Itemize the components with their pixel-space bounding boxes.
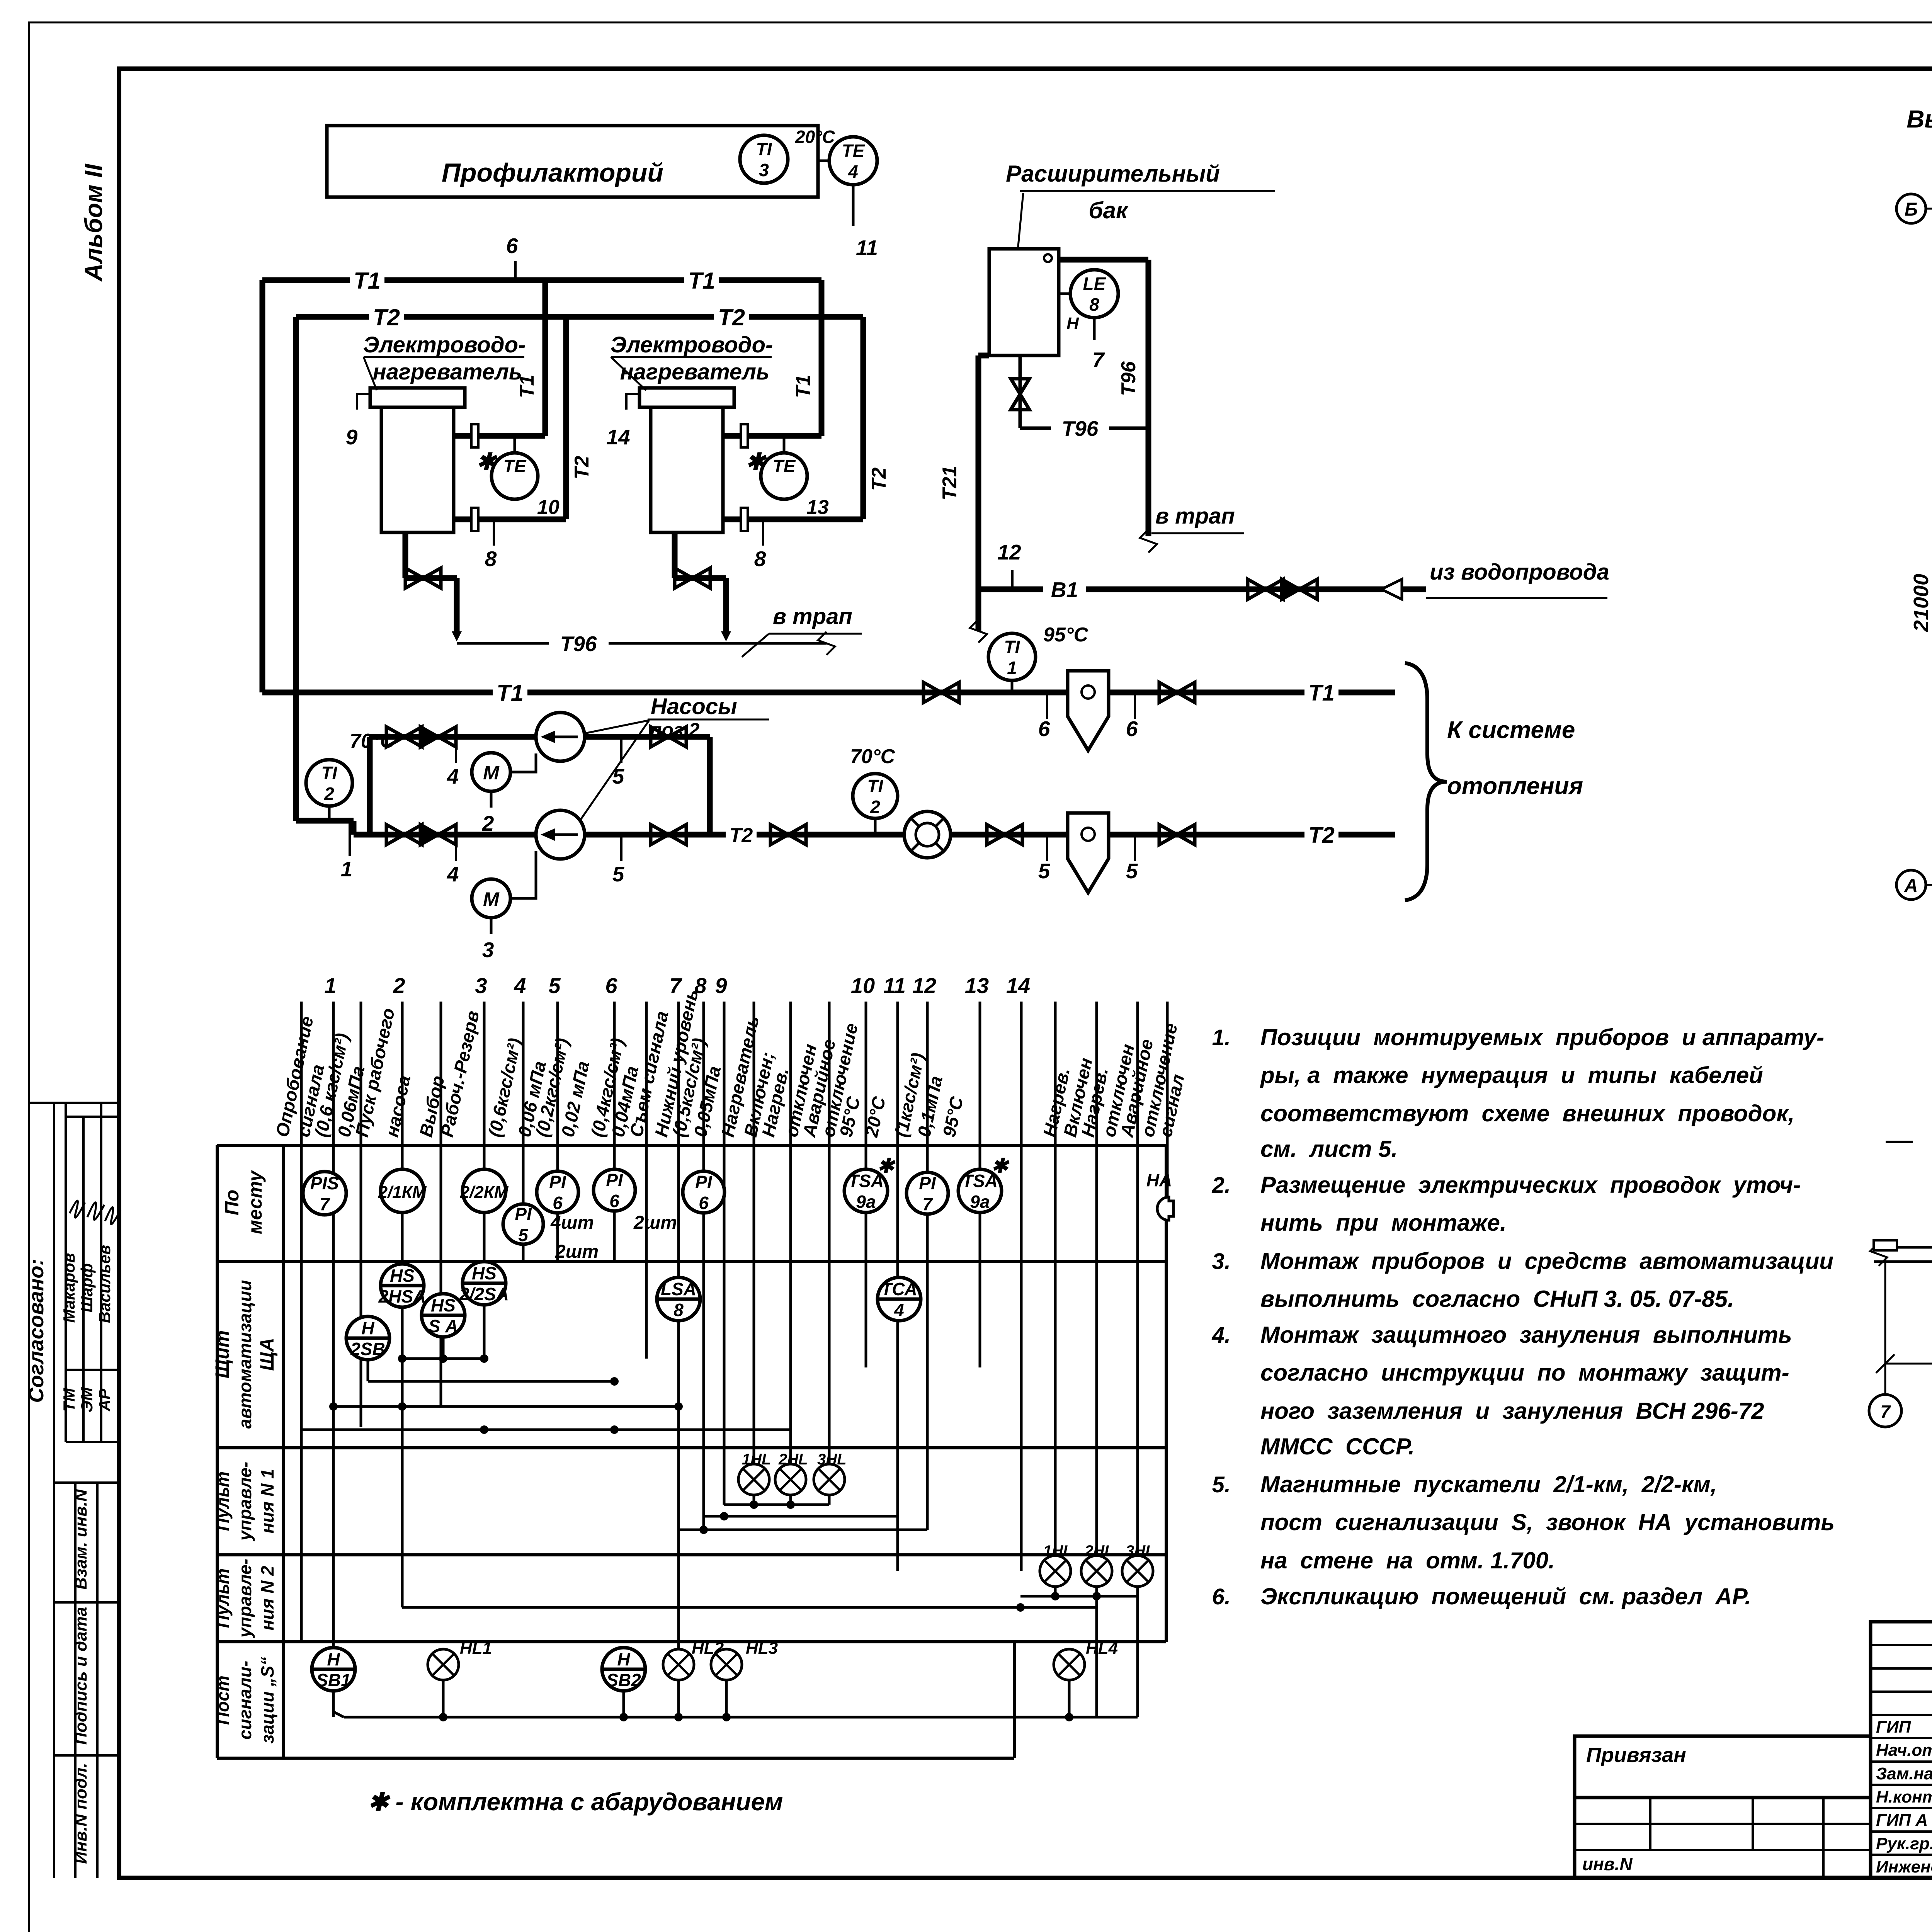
label 4 lower — [455, 835, 457, 861]
valve T2-a — [770, 825, 788, 845]
svg-text:3НL: 3НL — [1126, 1543, 1155, 1560]
svg-text:1НL: 1НL — [742, 1451, 771, 1468]
svg-text:в трап: в трап — [1155, 503, 1235, 529]
svg-text:2: 2 — [870, 797, 880, 817]
instrument LSA-8 — [657, 1277, 700, 1321]
svg-text:Т96: Т96 — [560, 632, 597, 656]
instrument TI-3 — [740, 135, 788, 183]
wire TI3-TE4 — [818, 160, 829, 162]
instrument PIS-7 — [303, 1172, 346, 1215]
svg-text:1: 1 — [341, 857, 353, 881]
panel wiring row4 — [1054, 1587, 1057, 1596]
svg-text:ТЕ: ТЕ — [842, 141, 865, 161]
svg-text:соответствуют схеме внешних: соответствуют схеме внешних проводок, — [1260, 1100, 1794, 1126]
svg-text:месту: месту — [244, 1170, 266, 1234]
svg-text:1НL: 1НL — [1043, 1543, 1073, 1560]
svg-text:2.: 2. — [1212, 1173, 1231, 1198]
svg-text:РI: РI — [549, 1172, 566, 1192]
label Т1 right — [1304, 681, 1338, 704]
svg-text:3: 3 — [759, 160, 769, 180]
expansion tank — [989, 249, 1059, 355]
pipe T2 return left — [296, 818, 354, 824]
svg-text:3НL: 3НL — [817, 1451, 847, 1468]
svg-text:пост сигнализации S, звонок: пост сигнализации S, звонок НА установит… — [1260, 1509, 1835, 1535]
svg-text:2НL: 2НL — [1084, 1543, 1114, 1560]
svg-text:Т2: Т2 — [718, 304, 745, 330]
motor M1 — [472, 753, 510, 791]
instrument TE-4 — [829, 137, 877, 185]
svg-text:6: 6 — [699, 1193, 709, 1213]
instrument PI-5 — [503, 1204, 543, 1244]
label 5 strainer left — [1046, 835, 1048, 861]
svg-text:управле-: управле- — [235, 1462, 255, 1541]
svg-text:✱: ✱ — [991, 1155, 1010, 1177]
svg-text:Т2: Т2 — [730, 824, 753, 847]
instrument TE-13 — [783, 436, 786, 453]
svg-text:Н: Н — [327, 1649, 340, 1669]
label 12 tick — [1011, 570, 1014, 588]
instrument TI-2 — [306, 760, 352, 806]
svg-text:2: 2 — [324, 784, 334, 804]
svg-text:5: 5 — [1038, 859, 1051, 883]
svg-text:ТЕ: ТЕ — [503, 456, 527, 476]
instrument LE-8 — [1059, 293, 1071, 295]
pipe B1 water — [978, 587, 1043, 592]
svg-text:ния N 2: ния N 2 — [257, 1566, 277, 1631]
svg-text:14: 14 — [606, 425, 630, 449]
svg-text:Н: Н — [617, 1649, 630, 1669]
svg-text:ТI: ТI — [1004, 637, 1020, 657]
svg-text:РI: РI — [919, 1173, 936, 1193]
svg-text:ТI: ТI — [867, 776, 884, 796]
svg-text:Позиции монтируемых приборов: Позиции монтируемых приборов и аппарату- — [1260, 1024, 1824, 1050]
lamp 2HL row3 — [775, 1464, 806, 1495]
system brace — [1405, 663, 1447, 900]
instrument TI-2b — [853, 774, 898, 818]
svg-text:11: 11 — [856, 236, 878, 260]
panel wiring row3 — [753, 1495, 755, 1505]
svg-text:2шт: 2шт — [555, 1242, 599, 1262]
svg-text:ММСС СССР.: ММСС СССР. — [1260, 1434, 1415, 1459]
svg-text:Т21: Т21 — [939, 466, 961, 500]
svg-text:РI: РI — [695, 1172, 713, 1192]
svg-text:5.: 5. — [1212, 1472, 1231, 1497]
svg-text:8: 8 — [1089, 294, 1099, 315]
button H-SB1 — [312, 1648, 355, 1691]
svg-text:ры, а также нумерация и ти: ры, а также нумерация и типы кабелей — [1260, 1062, 1763, 1088]
sidebar top line — [29, 1102, 119, 1104]
svg-text:95°С: 95°С — [1043, 624, 1089, 646]
svg-text:ния N 1: ния N 1 — [257, 1469, 277, 1533]
pipe T21 — [976, 355, 981, 631]
svg-text:Б: Б — [1905, 199, 1918, 220]
svg-text:LЕ: LЕ — [1083, 274, 1106, 294]
svg-text:см. лист 5.: см. лист 5. — [1260, 1136, 1398, 1162]
instrument HS-2HSA — [381, 1264, 424, 1307]
svg-text:НS: НS — [472, 1263, 497, 1283]
svg-text:10: 10 — [851, 973, 875, 998]
svg-text:10: 10 — [537, 496, 560, 519]
lamp HL2 — [663, 1649, 694, 1680]
svg-text:3: 3 — [475, 973, 487, 998]
svg-text:Монтаж приборов и средств: Монтаж приборов и средств автоматизации — [1260, 1248, 1833, 1274]
svg-text:5: 5 — [548, 973, 561, 998]
svg-text:20°С: 20°С — [795, 127, 835, 147]
svg-text:ЭМ: ЭМ — [78, 1387, 96, 1412]
svg-text:бак: бак — [1089, 197, 1129, 223]
wire TE4 stem — [852, 185, 855, 226]
svg-text:Электроводо-: Электроводо- — [363, 332, 526, 357]
pump 2 — [536, 810, 585, 859]
svg-text:нить при монтаже.: нить при монтаже. — [1260, 1210, 1507, 1236]
svg-text:4: 4 — [848, 162, 858, 182]
svg-text:6: 6 — [506, 234, 518, 258]
svg-text:1: 1 — [1007, 658, 1017, 678]
svg-text:Размещение электрических про: Размещение электрических проводок уточ- — [1260, 1172, 1801, 1198]
label 5 lower — [620, 835, 622, 861]
pipe T96 tank — [1020, 427, 1051, 430]
strainer T1 — [1068, 671, 1109, 750]
svg-text:13: 13 — [806, 496, 829, 519]
instrument TE-10 — [514, 436, 516, 453]
lamp HL4 — [1054, 1649, 1085, 1680]
svg-text:НS: НS — [390, 1265, 415, 1286]
svg-text:Пульт: Пульт — [213, 1471, 233, 1531]
pipe T1 main — [262, 690, 1395, 696]
svg-text:Т1: Т1 — [792, 375, 815, 398]
lamp 2HL row4 — [1081, 1556, 1112, 1587]
svg-text:5: 5 — [518, 1225, 529, 1245]
lamp 1HL row4 — [1040, 1556, 1071, 1587]
lamp HL1 — [428, 1649, 459, 1680]
svg-text:7: 7 — [320, 1194, 330, 1214]
svg-text:8: 8 — [754, 547, 766, 571]
svg-text:4шт: 4шт — [550, 1213, 594, 1233]
label 4 upper — [455, 737, 457, 763]
svg-text:2НSА: 2НSА — [378, 1286, 426, 1306]
svg-text:12: 12 — [997, 540, 1021, 564]
svg-text:НL3: НL3 — [746, 1639, 778, 1658]
svg-text:выполнить согласно СНиП 3. 0: выполнить согласно СНиП 3. 05. 07-85. — [1260, 1286, 1734, 1312]
tank drain valve — [1019, 355, 1022, 428]
svg-text:SВ1: SВ1 — [316, 1670, 350, 1690]
svg-text:9а: 9а — [970, 1192, 990, 1212]
heater1 T2 riser — [563, 317, 569, 519]
tank overflow pipe — [1059, 257, 1148, 263]
svg-text:ЩА: ЩА — [256, 1338, 278, 1371]
svg-text:Н: Н — [1066, 314, 1079, 333]
svg-text:ТI: ТI — [321, 763, 338, 783]
heater1 hook 9 — [357, 394, 370, 410]
heater1 drain valve — [403, 532, 408, 578]
svg-text:Макаров: Макаров — [60, 1253, 78, 1323]
svg-text:ТЕ: ТЕ — [773, 456, 796, 476]
svg-text:АР: АР — [95, 1388, 114, 1412]
svg-text:ТМ: ТМ — [60, 1388, 78, 1412]
svg-text:6.: 6. — [1212, 1584, 1231, 1609]
instrument PI-6b — [594, 1169, 635, 1211]
instrument TCA-4 — [878, 1277, 921, 1321]
svg-text:управле-: управле- — [235, 1559, 255, 1638]
svg-text:Т2: Т2 — [868, 468, 890, 491]
svg-text:нагреватель: нагреватель — [373, 359, 522, 384]
label Т2 right — [1304, 823, 1338, 846]
svg-text:Магнитные пускатели 2/1-км,: Магнитные пускатели 2/1-км, 2/2-км, — [1260, 1471, 1717, 1497]
ceiling dashes — [1886, 1141, 1913, 1143]
instrument TSA-9a first — [844, 1169, 888, 1213]
label 6 strainer right — [1134, 692, 1136, 719]
valve T2-b — [987, 825, 1005, 845]
svg-text:ТСА: ТСА — [881, 1279, 917, 1299]
heater2 hook 14 — [626, 394, 639, 410]
svg-text:М: М — [483, 762, 500, 784]
upper branch valve out — [585, 734, 710, 740]
svg-text:зации „S“: зации „S“ — [257, 1657, 277, 1743]
svg-text:3.: 3. — [1212, 1249, 1231, 1274]
pipe T1 header — [262, 277, 821, 283]
svg-text:инв.N: инв.N — [1582, 1854, 1633, 1874]
block Профилакторий — [327, 126, 818, 197]
svg-text:Т2: Т2 — [571, 456, 593, 480]
title block privyazan box — [1575, 1736, 1871, 1798]
svg-text:Т1: Т1 — [354, 268, 381, 294]
valve T1-b — [1159, 682, 1177, 702]
svg-text:8: 8 — [673, 1300, 684, 1320]
svg-text:5: 5 — [612, 862, 625, 886]
signature scribbles — [70, 1201, 85, 1218]
svg-text:Альбом II: Альбом II — [80, 163, 107, 282]
svg-text:ГИП А: ГИП А — [1876, 1811, 1928, 1830]
svg-text:9: 9 — [346, 425, 358, 449]
svg-text:70°С: 70°С — [850, 745, 896, 768]
heater1 bottom pipe — [454, 517, 566, 522]
heater 2 — [639, 388, 734, 407]
svg-text:К системе: К системе — [1447, 717, 1575, 743]
svg-text:нагреватель: нагреватель — [620, 359, 770, 384]
svg-text:2НL: 2НL — [778, 1451, 808, 1468]
svg-text:отопления: отопления — [1447, 773, 1583, 799]
instrument PI-7 — [906, 1172, 948, 1214]
label 6 tick — [514, 261, 517, 280]
svg-text:Подпись и дата: Подпись и дата — [71, 1607, 90, 1745]
svg-text:НА: НА — [1146, 1170, 1172, 1190]
svg-text:Насосы: Насосы — [651, 694, 737, 719]
svg-text:Щит: Щит — [211, 1330, 233, 1378]
label 5 strainer right — [1134, 835, 1136, 861]
svg-text:S А: S А — [429, 1316, 458, 1336]
heater2 T1 riser — [819, 280, 825, 436]
svg-text:Пульт: Пульт — [213, 1568, 233, 1628]
svg-text:2/1КМ: 2/1КМ — [378, 1183, 427, 1202]
svg-text:Электроводо-: Электроводо- — [611, 332, 773, 357]
svg-text:РIS: РIS — [310, 1173, 339, 1193]
sidebar approval table — [65, 1103, 67, 1442]
svg-text:1.: 1. — [1212, 1025, 1231, 1050]
svg-text:Т1: Т1 — [497, 680, 524, 706]
instrument PI-6c — [683, 1171, 724, 1213]
svg-text:РI: РI — [515, 1204, 532, 1224]
axis A — [1896, 870, 1926, 900]
svg-text:7: 7 — [1880, 1401, 1891, 1422]
svg-text:Н: Н — [361, 1318, 374, 1338]
svg-text:2шт: 2шт — [633, 1213, 677, 1233]
title block personnel table — [1871, 1622, 1932, 1878]
svg-text:Т1: Т1 — [1308, 680, 1335, 706]
svg-text:Рук.гр.: Рук.гр. — [1876, 1834, 1932, 1853]
heater2 T2 riser — [861, 317, 866, 519]
pump 1 — [536, 713, 585, 761]
svg-text:1: 1 — [324, 973, 336, 998]
svg-text:11: 11 — [883, 973, 906, 998]
svg-text:21000: 21000 — [1910, 574, 1932, 632]
svg-text:13: 13 — [965, 973, 989, 998]
svg-text:Шарф: Шарф — [78, 1263, 96, 1312]
svg-text:2/2КМ: 2/2КМ — [460, 1183, 509, 1202]
svg-text:4: 4 — [894, 1300, 904, 1320]
lamp HL3 — [711, 1649, 742, 1680]
svg-text:Выкопировка из плана на от: Выкопировка из плана на отм. 0.000 — [1906, 105, 1932, 133]
strainer T2 — [1068, 813, 1109, 893]
svg-text:ТI: ТI — [756, 139, 772, 159]
svg-text:Т1: Т1 — [516, 375, 538, 398]
svg-text:М: М — [483, 888, 500, 910]
svg-text:из водопровода: из водопровода — [1430, 560, 1609, 585]
valve T1-a — [923, 682, 941, 702]
svg-text:6: 6 — [553, 1193, 563, 1213]
motor M2 — [472, 879, 510, 918]
svg-text:Н.контр.: Н.контр. — [1876, 1787, 1932, 1806]
svg-text:8: 8 — [485, 547, 497, 571]
heater2 bottom pipe — [723, 517, 863, 522]
svg-text:НL1: НL1 — [460, 1639, 492, 1658]
svg-text:4: 4 — [514, 973, 526, 998]
label 1 tick — [349, 821, 351, 856]
svg-text:Согласовано:: Согласовано: — [25, 1259, 48, 1403]
heater1 drain drop — [454, 578, 460, 634]
mixing valve — [904, 811, 951, 858]
instrument 2/2KM — [463, 1169, 506, 1213]
instrument H-2SB — [346, 1316, 389, 1360]
grid lines section — [1884, 1262, 1886, 1395]
arrow from water supply — [1381, 579, 1402, 599]
svg-text:5: 5 — [1126, 859, 1138, 883]
sidebar lower cells — [53, 1103, 55, 1878]
bottom signal bus — [344, 1716, 1138, 1719]
svg-text:SВ2: SВ2 — [606, 1670, 641, 1690]
label 5 upper — [620, 737, 622, 763]
lamp 1HL row3 — [738, 1464, 769, 1495]
instrument HS-2/2SA — [463, 1262, 506, 1305]
svg-text:2: 2 — [393, 973, 405, 998]
heater1 T1 riser — [543, 280, 548, 436]
svg-text:Пост: Пост — [213, 1675, 233, 1725]
svg-text:9: 9 — [715, 973, 727, 998]
svg-text:Зам.нач.: Зам.нач. — [1876, 1764, 1932, 1783]
lamp 3HL row3 — [814, 1464, 845, 1495]
svg-text:2/2SА: 2/2SА — [459, 1284, 509, 1304]
svg-text:Т2: Т2 — [1308, 823, 1335, 848]
svg-text:4: 4 — [447, 862, 459, 886]
svg-text:7: 7 — [1092, 348, 1105, 372]
heater2 drain valve — [672, 532, 678, 578]
svg-text:ного заземления и зануления: ного заземления и зануления ВСН 296-72 — [1260, 1398, 1764, 1424]
svg-text:LSА: LSА — [661, 1279, 696, 1299]
svg-text:Взам. инв.N: Взам. инв.N — [71, 1489, 90, 1590]
svg-text:ГИП: ГИП — [1876, 1718, 1912, 1736]
pipe T96 drain — [457, 642, 549, 645]
pipe T2 main — [753, 832, 1395, 838]
valve B1 — [1248, 579, 1265, 599]
svg-text:6: 6 — [609, 1191, 619, 1211]
title block lower-left table — [1575, 1798, 1871, 1878]
heater 1 — [370, 388, 465, 407]
svg-text:Привязан: Привязан — [1586, 1743, 1686, 1767]
heater1 outlet pipe — [454, 433, 545, 439]
svg-text:в трап: в трап — [773, 604, 852, 629]
svg-text:на стене на отм. 1.700.: на стене на отм. 1.700. — [1260, 1548, 1555, 1573]
svg-text:НL4: НL4 — [1086, 1639, 1118, 1658]
lamp 3HL row4 — [1122, 1556, 1153, 1587]
svg-text:5: 5 — [612, 764, 625, 788]
svg-text:6: 6 — [1126, 717, 1138, 741]
svg-text:6: 6 — [1038, 717, 1050, 741]
pump branch lower — [370, 832, 536, 838]
svg-text:✱: ✱ — [877, 1155, 896, 1177]
svg-text:Васильев: Васильев — [95, 1245, 114, 1323]
svg-text:3: 3 — [482, 938, 494, 962]
floor band — [1874, 1246, 1932, 1249]
svg-text:Т96: Т96 — [1117, 361, 1140, 396]
svg-text:По: По — [221, 1190, 243, 1216]
svg-text:Нач.отд.: Нач.отд. — [1876, 1741, 1932, 1760]
heater2 drain drop — [723, 578, 729, 634]
svg-text:4: 4 — [447, 764, 459, 788]
svg-text:Т1: Т1 — [688, 268, 715, 294]
svg-text:12: 12 — [912, 973, 936, 998]
section dim line — [1885, 1363, 1932, 1365]
label 6 strainer left — [1046, 692, 1048, 719]
axis B — [1896, 194, 1926, 223]
svg-text:согласно инструкции по монт: согласно инструкции по монтажу защит- — [1260, 1360, 1789, 1386]
svg-text:2SВ: 2SВ — [350, 1339, 385, 1359]
svg-text:РI: РI — [606, 1170, 623, 1190]
svg-text:14: 14 — [1006, 973, 1030, 998]
svg-text:автоматизации: автоматизации — [235, 1280, 255, 1429]
instrument TSA-9a second — [958, 1169, 1002, 1213]
svg-text:Инженер: Инженер — [1876, 1857, 1932, 1876]
svg-text:7: 7 — [922, 1194, 933, 1214]
instrument 2/1KM — [381, 1169, 424, 1213]
svg-text:Т2: Т2 — [373, 304, 400, 330]
svg-text:9а: 9а — [856, 1192, 876, 1212]
svg-text:Т96: Т96 — [1062, 417, 1099, 440]
pump branch upper — [370, 734, 536, 740]
svg-text:6: 6 — [605, 973, 617, 998]
panel wiring row2 — [367, 1360, 369, 1381]
button H-SB2 — [602, 1648, 645, 1691]
svg-text:Экспликацию помещений см. ра: Экспликацию помещений см. раздел АР. — [1260, 1583, 1751, 1609]
valve T2-c — [1159, 825, 1177, 845]
instrument HS-SA — [422, 1294, 465, 1337]
signal matrix table frame — [217, 1144, 1166, 1147]
svg-text:Профилакторий: Профилакторий — [442, 158, 663, 187]
signal lines — [300, 1002, 303, 1642]
svg-text:4.: 4. — [1212, 1323, 1231, 1348]
svg-text:Инв.N подл.: Инв.N подл. — [71, 1763, 90, 1864]
instrument PI-6a — [537, 1171, 578, 1213]
svg-text:А: А — [1904, 876, 1918, 896]
pipe T2 header — [296, 314, 863, 320]
